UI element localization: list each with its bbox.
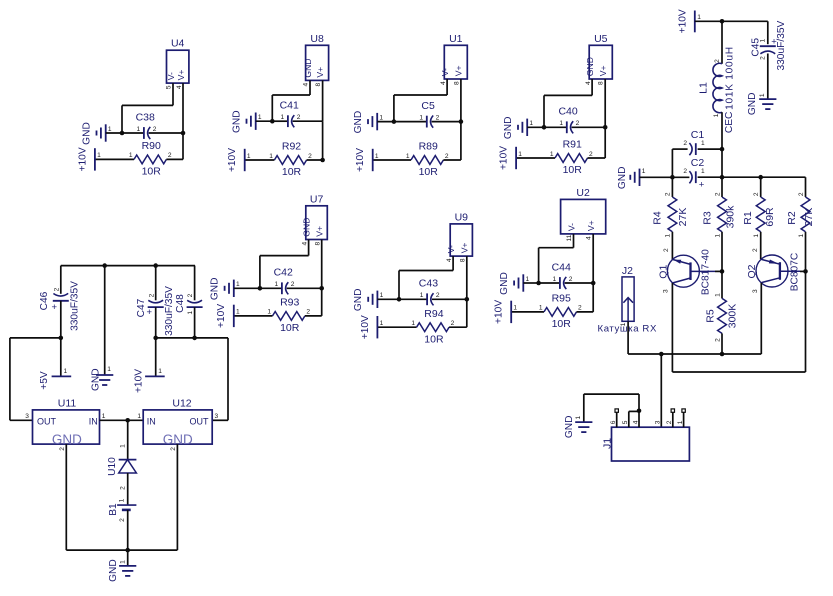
wire R93 to node (305, 315, 322, 317)
svg-text:3: 3 (663, 289, 670, 293)
svg-text:300K: 300K (727, 304, 739, 329)
wire node down u8 (322, 121, 324, 160)
power +5V (52, 375, 72, 377)
svg-text:U2: U2 (576, 187, 590, 199)
svg-text:GND: GND (302, 218, 312, 237)
node junction u9-b (465, 297, 470, 302)
svg-text:2: 2 (306, 309, 310, 316)
transistor Q2 BC807C (756, 255, 788, 287)
svg-text:1: 1 (119, 444, 126, 448)
wire L1 to C1 node (721, 112, 723, 149)
ground GND mid (96, 374, 113, 376)
wire node down u4 (182, 133, 184, 159)
svg-text:2: 2 (714, 192, 721, 196)
svg-text:1: 1 (513, 305, 517, 312)
node junction u2-b (591, 281, 596, 286)
svg-text:U9: U9 (455, 211, 469, 223)
node junction gnd drop (102, 263, 107, 268)
svg-text:8: 8 (453, 81, 460, 85)
capacitor C40 (566, 121, 568, 133)
svg-text:IN: IN (89, 417, 98, 427)
wire node down u9 (466, 299, 468, 327)
resistor R3 (718, 197, 727, 232)
svg-text:10R: 10R (563, 164, 583, 176)
svg-text:2: 2 (153, 126, 157, 133)
svg-text:GND: GND (303, 58, 313, 77)
svg-text:+10V: +10V (677, 9, 688, 33)
capacitor C48 (187, 306, 203, 308)
svg-text:330uF/35V: 330uF/35V (69, 281, 80, 331)
svg-text:4: 4 (585, 81, 592, 85)
svg-text:V-: V- (566, 223, 576, 231)
wire C40 to node (572, 126, 606, 128)
wire C44 to node (565, 282, 594, 284)
wire node down u2 (592, 283, 594, 312)
svg-text:1: 1 (753, 234, 760, 238)
svg-text:1: 1 (553, 276, 557, 283)
transistor Q1 BC817-40 (667, 255, 699, 287)
svg-text:GND: GND (232, 110, 243, 133)
wire +10V to R92 (245, 159, 275, 161)
svg-text:2: 2 (589, 151, 593, 158)
svg-text:10R: 10R (142, 166, 162, 178)
wire U4 pin 5 to node (122, 104, 173, 106)
wire node to C44 (539, 282, 560, 284)
svg-text:+10V: +10V (134, 369, 145, 393)
svg-text:U5: U5 (594, 33, 608, 45)
wire bus to C48 (194, 266, 196, 301)
wire C38 to node (149, 132, 183, 134)
svg-text:1: 1 (550, 151, 554, 158)
svg-text:GND: GND (617, 166, 628, 189)
capacitor C45 (760, 45, 776, 47)
svg-text:330uF/35V: 330uF/35V (164, 286, 175, 336)
wire C48 down (194, 307, 196, 338)
svg-text:1: 1 (258, 114, 262, 121)
ground GND u7 (224, 286, 226, 291)
power +10V u4 (94, 148, 96, 170)
svg-text:101K 100uH: 101K 100uH (724, 46, 735, 110)
connector U5 (589, 45, 612, 79)
svg-text:+5V: +5V (39, 371, 50, 390)
svg-text:2: 2 (569, 276, 573, 283)
wire U10 to B1 (127, 473, 129, 505)
svg-text:1: 1 (379, 114, 383, 121)
svg-text:2: 2 (576, 120, 580, 127)
svg-text:2: 2 (445, 153, 449, 160)
svg-text:2: 2 (308, 153, 312, 160)
svg-text:1: 1 (102, 413, 106, 420)
svg-text:C48: C48 (175, 294, 186, 313)
svg-text:10R: 10R (280, 322, 300, 334)
svg-text:C38: C38 (136, 111, 155, 123)
wire Q1 emitter down (671, 283, 673, 372)
ground GND u1 (367, 119, 369, 124)
svg-text:1: 1 (665, 234, 672, 238)
wire R2 to Q2 base node (805, 232, 807, 272)
connector J2 (622, 277, 634, 321)
U2 pin 11 stub (573, 234, 575, 248)
svg-text:2: 2 (436, 292, 440, 299)
node junction R1 top (758, 175, 763, 180)
U7 pin 4 stub (308, 240, 310, 256)
wire node down u1 (460, 122, 462, 160)
wire Q2 base to node (800, 270, 806, 272)
svg-text:1: 1 (714, 293, 721, 297)
svg-text:GND: GND (210, 277, 221, 300)
svg-text:10R: 10R (419, 166, 439, 178)
wire node to C43 (399, 298, 427, 300)
svg-text:1: 1 (642, 168, 646, 175)
svg-text:+10V: +10V (77, 147, 88, 171)
wire +10V to L1/C45 (695, 20, 768, 22)
svg-text:8: 8 (314, 242, 321, 246)
svg-text:4: 4 (301, 242, 308, 246)
node junction L1 top (720, 19, 725, 24)
node junction u2-a (536, 281, 541, 286)
U5 pin 8 stub (604, 79, 606, 127)
svg-text:V+: V+ (315, 226, 325, 237)
svg-text:V-: V- (166, 72, 176, 80)
svg-text:+10V: +10V (227, 148, 238, 172)
svg-text:1: 1 (137, 126, 141, 133)
svg-text:2: 2 (578, 305, 582, 312)
regulator U11 (33, 410, 100, 444)
svg-text:1: 1 (419, 114, 423, 121)
wire C46 to +5V (60, 338, 62, 377)
wire down to L1 (721, 21, 723, 64)
svg-text:V-: V- (440, 68, 450, 76)
capacitor C47 (148, 306, 164, 308)
svg-text:1: 1 (236, 281, 240, 288)
svg-text:+: + (146, 307, 152, 318)
diode U10 (119, 459, 137, 461)
svg-text:1: 1 (119, 498, 126, 502)
node junction J1 pin3 (659, 352, 664, 357)
svg-text:1: 1 (187, 311, 194, 315)
svg-text:U1: U1 (449, 33, 463, 45)
svg-text:GND: GND (503, 116, 514, 139)
svg-text:2: 2 (119, 486, 126, 490)
ground GND u2 (513, 281, 515, 286)
capacitor C5 (426, 116, 428, 128)
svg-text:1: 1 (420, 292, 424, 299)
svg-text:V+: V+ (454, 65, 464, 76)
power +10V u1 (372, 149, 374, 171)
wire B1 down (127, 510, 129, 550)
connector U9 (450, 224, 472, 256)
svg-text:+: + (51, 302, 57, 313)
node junction R5 bottom (720, 352, 725, 357)
ground GND u8 (246, 119, 248, 124)
wire bus Q1-R2 (672, 371, 805, 373)
wire R1 to Q2 (760, 232, 762, 259)
wire GND to node u7 (234, 287, 260, 289)
connector J1 (612, 427, 690, 461)
svg-text:J1: J1 (601, 438, 613, 449)
svg-text:1: 1 (108, 126, 112, 133)
node junction C48 bottom (192, 336, 197, 341)
capacitor C43 (426, 293, 428, 305)
svg-text:GND: GND (108, 559, 119, 582)
svg-text:1: 1 (759, 93, 766, 97)
wire U11 IN to node (100, 419, 144, 421)
resistor R93 (273, 312, 305, 321)
svg-text:3: 3 (752, 289, 759, 293)
svg-text:8: 8 (315, 82, 322, 86)
wire bus to C46 (60, 266, 62, 294)
wire node to C40 (544, 126, 567, 128)
capacitor C46 (53, 300, 69, 302)
svg-text:1: 1 (375, 153, 379, 160)
wire C5 to node (432, 121, 461, 123)
svg-text:2: 2 (665, 192, 672, 196)
node junction u8-a (270, 119, 275, 124)
svg-text:1: 1 (281, 114, 285, 121)
svg-text:R3: R3 (701, 211, 713, 225)
wire +10V to R95 (511, 311, 544, 313)
resistor R5 (718, 298, 727, 333)
wire +10V to R94 (377, 326, 416, 328)
U1 pin 4 stub (446, 79, 448, 95)
svg-text:GND: GND (585, 57, 595, 76)
svg-text:Q1: Q1 (658, 265, 670, 279)
svg-text:+10V: +10V (360, 315, 371, 339)
svg-text:+10V: +10V (216, 304, 227, 328)
svg-text:V+: V+ (460, 243, 470, 254)
svg-text:1: 1 (64, 368, 68, 375)
U9 pin 4 stub (452, 256, 454, 270)
U7 pin 8 stub (321, 240, 323, 289)
wire Q2 emitter down (760, 283, 762, 354)
node junction J1 pin4 (637, 409, 642, 414)
wire R89 to node (443, 159, 461, 161)
svg-text:U4: U4 (171, 38, 185, 50)
svg-text:U10: U10 (107, 457, 118, 476)
connector U1 (444, 45, 467, 79)
node junction u7-b (319, 286, 324, 291)
svg-text:2: 2 (760, 56, 767, 60)
wire R4 to Q1 (671, 232, 673, 260)
U2 pin 4 stub (592, 234, 594, 283)
svg-text:OUT: OUT (37, 417, 57, 427)
svg-text:8: 8 (459, 258, 466, 262)
svg-text:1: 1 (380, 320, 384, 327)
svg-text:2: 2 (663, 248, 670, 252)
svg-text:8: 8 (598, 81, 605, 85)
wire C47 to C48 (156, 337, 195, 339)
svg-text:+10V: +10V (499, 146, 510, 170)
svg-text:BC817-40: BC817-40 (701, 249, 712, 295)
svg-text:U11: U11 (58, 397, 77, 409)
svg-text:IN: IN (147, 417, 156, 427)
svg-text:1: 1 (137, 413, 141, 420)
wire Q1 base node to R5 (721, 271, 723, 298)
wire U8 pin 4 to node (272, 94, 310, 96)
wire +10V to R93 (234, 315, 273, 317)
ground GND u5 (517, 125, 519, 130)
wire C43 to node (432, 298, 467, 300)
wire J1 pin3 up (660, 354, 662, 427)
svg-text:2: 2 (753, 192, 760, 196)
battery B1 (117, 504, 136, 506)
svg-text:3: 3 (25, 413, 29, 420)
svg-text:1: 1 (411, 320, 415, 327)
svg-text:GND: GND (353, 288, 364, 311)
wire node to C41 (272, 120, 288, 122)
resistor R90 (134, 155, 166, 164)
svg-text:CEC: CEC (724, 112, 735, 134)
wire C48 to U12 OUT (195, 337, 228, 339)
resistor R4 (668, 197, 677, 232)
wire R2 node down (805, 271, 807, 372)
ground GND bottom (119, 565, 136, 567)
wire Q1 base to node (715, 270, 722, 272)
svg-text:R1: R1 (742, 211, 754, 225)
svg-text:69R: 69R (764, 207, 776, 227)
wire GND to node u2 (523, 282, 538, 284)
svg-text:11: 11 (566, 234, 573, 241)
node junction C1 right (720, 147, 725, 152)
svg-text:V+: V+ (598, 65, 608, 76)
svg-text:U7: U7 (310, 193, 324, 205)
svg-text:C42: C42 (274, 267, 293, 279)
power +10V u8 (244, 149, 246, 171)
wire U9 pin 4 to node (399, 270, 453, 272)
svg-text:1: 1 (406, 153, 410, 160)
svg-text:R95: R95 (552, 293, 571, 305)
svg-text:R92: R92 (282, 141, 301, 153)
svg-text:R89: R89 (419, 141, 438, 153)
svg-text:GND: GND (564, 415, 575, 438)
svg-text:1: 1 (713, 113, 720, 117)
svg-text:U8: U8 (310, 33, 324, 45)
resistor R2 (801, 197, 810, 232)
svg-text:GND: GND (747, 92, 758, 115)
svg-text:390k: 390k (725, 205, 737, 229)
wire GND to node u5 (527, 126, 544, 128)
svg-text:1: 1 (526, 276, 530, 283)
svg-text:2: 2 (53, 287, 60, 291)
node junction reg mid (125, 418, 130, 423)
svg-text:2: 2 (436, 114, 440, 121)
power +10V u2 (510, 301, 512, 323)
U9 pin 8 stub (466, 256, 468, 299)
wire J1 pin5 jumper (629, 410, 639, 412)
svg-text:1: 1 (236, 309, 240, 316)
svg-text:2: 2 (683, 140, 687, 147)
svg-text:C41: C41 (280, 100, 299, 112)
svg-text:330uF/35V: 330uF/35V (776, 20, 787, 70)
wire C42 to node (287, 287, 322, 289)
svg-text:R90: R90 (142, 140, 161, 152)
node junction u4-b (181, 131, 186, 136)
svg-text:R94: R94 (424, 308, 443, 320)
ground GND c2row (629, 175, 631, 180)
U4 pin 4 stub (182, 83, 184, 133)
wire node down u5 (604, 127, 606, 158)
svg-text:R93: R93 (280, 297, 299, 309)
wire node to C42 (260, 287, 282, 289)
wire top bus (61, 265, 195, 267)
svg-text:2: 2 (714, 338, 721, 342)
svg-text:+10V: +10V (355, 148, 366, 172)
wire U7 pin 4 to node (260, 255, 309, 257)
svg-text:C40: C40 (558, 106, 577, 118)
resistor R89 (411, 156, 443, 165)
wire GND to node u4 (106, 132, 122, 134)
wire GND to node u8 (256, 120, 273, 122)
wire U12 pin2 down (176, 444, 178, 550)
resistor R94 (417, 323, 450, 332)
svg-text:1: 1 (267, 309, 271, 316)
svg-text:GND: GND (353, 111, 364, 134)
svg-text:V-: V- (446, 245, 456, 253)
svg-text:2: 2 (291, 281, 295, 288)
svg-text:V+: V+ (315, 67, 325, 78)
capacitor C41 (287, 115, 289, 127)
connector U4 (167, 50, 189, 83)
svg-text:R91: R91 (563, 139, 582, 151)
wire J2 down (627, 321, 629, 354)
wire R90 to node (166, 158, 183, 160)
capacitor C42 (281, 282, 283, 294)
svg-text:2: 2 (714, 59, 721, 63)
svg-text:1: 1 (714, 234, 721, 238)
svg-text:U12: U12 (172, 397, 191, 409)
power +10V u7 (233, 305, 235, 327)
svg-text:2: 2 (297, 114, 301, 121)
node junction C47 top (153, 263, 158, 268)
wire L1node down (721, 149, 723, 177)
regulator U12 (143, 410, 212, 444)
wire C1 row left elbow (671, 149, 673, 177)
wire bus to R2 (805, 177, 807, 197)
wire node to GND bottom (127, 550, 129, 566)
svg-text:J2: J2 (622, 265, 633, 277)
capacitor C38 (143, 127, 145, 139)
ground GND u4 (96, 131, 98, 136)
node junction u5-b (603, 125, 608, 130)
svg-text:C46: C46 (39, 291, 50, 310)
ground GND u9 (367, 297, 369, 302)
wire GND to node u1 (377, 121, 394, 123)
svg-text:+: + (699, 179, 705, 190)
svg-text:R2: R2 (786, 211, 798, 225)
svg-text:1: 1 (539, 305, 543, 312)
wire bus to C47 (155, 266, 157, 301)
C2 junction left (670, 175, 675, 180)
svg-text:2: 2 (59, 447, 66, 451)
wire C41 to node (293, 120, 323, 122)
node junction C46 bottom (59, 336, 64, 341)
power +10V u9 (376, 316, 378, 338)
wire R91 to node (588, 157, 606, 159)
wire C46 down (60, 301, 62, 338)
svg-text:4: 4 (586, 236, 593, 240)
wire C45 to GND (767, 54, 769, 100)
capacitor C2 (695, 171, 697, 183)
power +10V left (145, 375, 165, 377)
svg-text:GND: GND (82, 122, 93, 145)
power +10V top (694, 11, 696, 33)
wire C47 to +10V (155, 338, 157, 377)
wire node to U10 (127, 420, 129, 459)
svg-text:10R: 10R (424, 333, 444, 345)
svg-text:1: 1 (518, 151, 522, 158)
wire +10V to R90 (95, 158, 134, 160)
resistor R1 (756, 197, 765, 232)
